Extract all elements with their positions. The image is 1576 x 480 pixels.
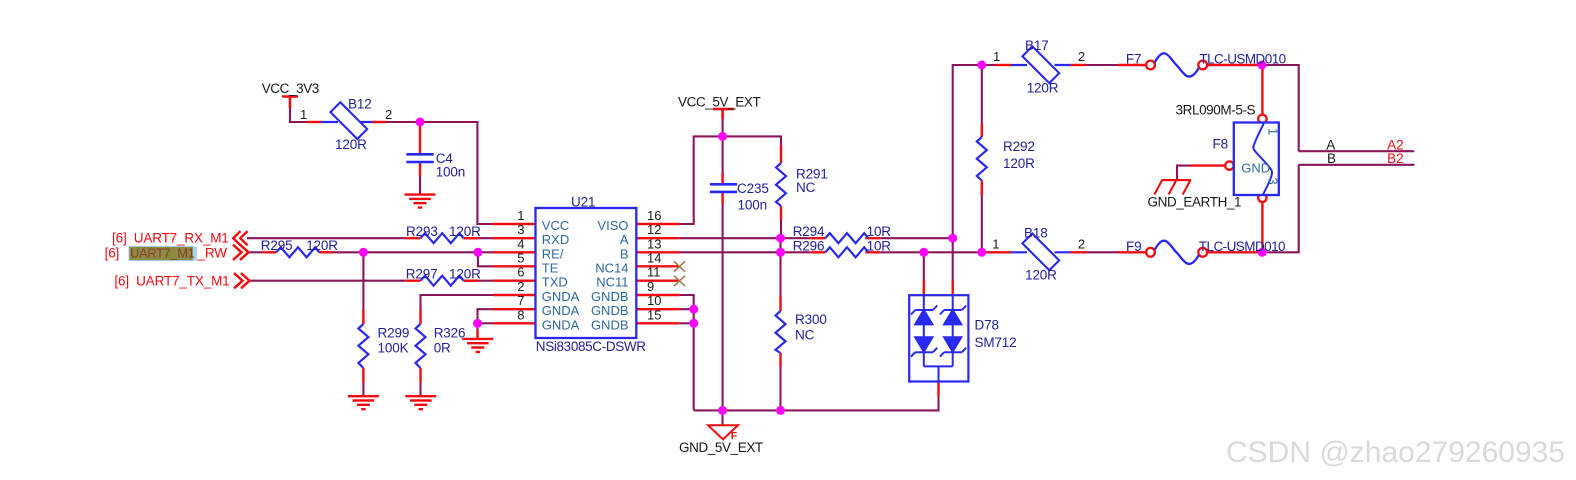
svg-text:2: 2 <box>385 107 392 122</box>
pin stub D78 bottom <box>937 382 939 398</box>
wire port RX to R293 <box>247 237 405 239</box>
svg-text:6: 6 <box>517 265 524 280</box>
pin stub R300 top <box>779 296 781 311</box>
wire RE row into chip pin4 <box>478 251 494 253</box>
resistor R291 vertical <box>776 163 786 206</box>
wire chip pin9 GNDB down <box>679 295 694 410</box>
svg-text:120R: 120R <box>449 266 481 281</box>
junction C235 bottom <box>718 406 727 415</box>
pin stub chip pin10 <box>636 308 679 310</box>
svg-text:TXD: TXD <box>542 275 568 290</box>
svg-text:B: B <box>1327 151 1336 166</box>
svg-text:TE: TE <box>542 260 559 275</box>
pin stub R326 top <box>419 310 421 324</box>
svg-text:7: 7 <box>517 293 524 308</box>
wire C4 bottom to ground <box>419 176 421 194</box>
svg-text:1: 1 <box>517 208 524 223</box>
svg-text:VCC: VCC <box>542 218 569 233</box>
resistor R295 <box>276 247 319 257</box>
svg-text:R296: R296 <box>793 238 825 253</box>
junction C4 tap <box>416 118 425 127</box>
wire R300 bottom to GND rail <box>779 367 781 411</box>
pin stub D78 right top <box>952 281 954 296</box>
svg-text:GNDA: GNDA <box>542 289 580 304</box>
svg-text:RE/: RE/ <box>542 246 564 261</box>
wire chip pinB to R296 <box>679 251 810 253</box>
svg-text:13: 13 <box>647 236 661 251</box>
svg-text:3RL090M-5-S: 3RL090M-5-S <box>1176 103 1256 118</box>
power bar VCC_3V3 <box>282 97 298 109</box>
junction 5V rail tap <box>718 132 727 141</box>
svg-text:120R: 120R <box>335 137 367 152</box>
pin stub chip pin11 NC <box>636 280 678 282</box>
wire F9 to B corner <box>1262 165 1299 253</box>
pin stub R292 top <box>981 123 983 137</box>
junction R292 bottom <box>977 248 986 257</box>
pin stub R297 left <box>406 280 421 282</box>
junction A net <box>948 234 957 243</box>
svg-text:UART7_M1: UART7_M1 <box>130 245 195 260</box>
wire F8 bottom to B rail <box>1261 243 1263 252</box>
svg-text:GND: GND <box>1241 161 1270 176</box>
wire F7 to A corner <box>1262 65 1299 151</box>
svg-text:TLC-USMD010: TLC-USMD010 <box>1199 239 1285 254</box>
svg-text:B18: B18 <box>1024 226 1048 241</box>
junction RE-TE tie <box>473 248 482 257</box>
wire chip pinA to R294 <box>679 237 810 239</box>
wire R294 to A junction <box>880 237 952 239</box>
pin stub R296 right <box>865 251 880 253</box>
pin stub R297 right <box>464 280 479 282</box>
port arrow RX left chevrons <box>233 231 247 245</box>
pin stub R295 left <box>263 251 277 253</box>
resistor R296 <box>825 247 868 257</box>
ferrite bead B17 <box>1011 46 1071 83</box>
wire VISO to 5V rail <box>679 136 781 224</box>
pin stub R296 left <box>810 251 825 253</box>
svg-text:NC14: NC14 <box>595 260 628 275</box>
D78 common bottom <box>924 366 953 381</box>
pin stub B12 pin2 <box>372 121 387 123</box>
wire chip pin7 pin8 GNDA tie <box>478 309 494 332</box>
pin stub R293 right <box>464 237 479 239</box>
wire VCC_3V3 down to B12 row <box>290 107 307 122</box>
wire F8 left pin to earth <box>1177 166 1191 180</box>
wire GND_5V_EXT symbol stub <box>721 410 723 425</box>
junction F8 top tap <box>1258 61 1267 70</box>
pin stub C235 bottom <box>721 193 723 205</box>
junction D78 left tap <box>919 248 928 257</box>
ferrite bead B18 <box>1011 234 1071 271</box>
wire R295 to RE node <box>319 252 493 266</box>
resistor R299 vertical <box>358 324 368 368</box>
pin stub B17 pin1 <box>996 64 1012 66</box>
port arrow RW right chevrons <box>233 245 249 260</box>
wire D78 left column tap <box>923 252 925 281</box>
svg-text:120R: 120R <box>1003 156 1035 171</box>
capacitor C235 <box>710 184 737 192</box>
junction R300 bottom rail <box>776 406 785 415</box>
D78 right zener pair <box>940 295 966 366</box>
svg-text:120R: 120R <box>306 238 338 253</box>
svg-text:GND_5V_EXT: GND_5V_EXT <box>679 440 763 455</box>
wire VCC_5V_EXT down <box>722 118 724 136</box>
svg-text:[6] UART7_TX_M1: [6] UART7_TX_M1 <box>114 274 229 289</box>
wire chip pin15 GNDB <box>679 322 694 324</box>
svg-text:RXD: RXD <box>542 232 569 247</box>
surge arrester F8 box <box>1225 115 1279 202</box>
resistor R292 vertical <box>977 137 987 181</box>
svg-text:R292: R292 <box>1003 139 1035 154</box>
wire top rail junction to B17 <box>982 64 996 66</box>
power bar VCC_5V_EXT <box>713 109 734 119</box>
svg-text:15: 15 <box>647 307 661 322</box>
pin stub F7 left <box>1118 64 1146 66</box>
svg-text:NSi83085C-DSWR: NSi83085C-DSWR <box>536 339 646 354</box>
no-connect X pin14 <box>674 261 685 271</box>
pin stub chip pin12 <box>636 237 679 239</box>
svg-text:[6]: [6] <box>105 245 120 260</box>
pin stub chip pin8 <box>493 322 536 324</box>
earth ground GND_EARTH_1 <box>1154 180 1191 194</box>
svg-text:3: 3 <box>517 222 524 237</box>
pin stub C4 bottom <box>419 163 421 177</box>
wire R291 bottom to row A <box>780 220 782 239</box>
TVS D78 box <box>909 295 968 381</box>
pin stub B12 pin1 <box>307 121 321 123</box>
svg-text:11: 11 <box>647 265 661 280</box>
F8 internal squiggle <box>1253 124 1272 196</box>
svg-text:120R: 120R <box>1025 268 1057 283</box>
wire R292 bottom to row B <box>981 194 983 253</box>
svg-text:B: B <box>620 246 629 261</box>
wire R299 bottom to ground <box>362 382 364 397</box>
ferrite bead B12 <box>321 102 372 139</box>
pin stub chip pin2 <box>493 294 536 296</box>
svg-text:R294: R294 <box>793 224 825 239</box>
svg-text:F8: F8 <box>1213 137 1228 152</box>
pin stub F8 left <box>1190 164 1225 166</box>
svg-text:B2: B2 <box>1387 151 1404 166</box>
pin stub chip pin3 <box>493 237 536 239</box>
resistor R326 vertical <box>416 324 426 368</box>
pin stub chip pin16 <box>636 223 679 225</box>
svg-text:[6] UART7_RX_M1: [6] UART7_RX_M1 <box>112 230 229 245</box>
wire B18 pin2 to F9 <box>1086 251 1120 253</box>
pin stub R291 top <box>780 145 782 163</box>
junction GNDB row15 <box>689 319 698 328</box>
pin stub C4 top <box>419 123 421 154</box>
wire chip pin2 GNDA to R326 <box>421 295 494 311</box>
svg-text:0R: 0R <box>434 341 451 356</box>
junction GNDA pins7-8 <box>473 319 482 328</box>
wire C235 column lower <box>722 203 724 410</box>
svg-text:CSDN @zhao279260935: CSDN @zhao279260935 <box>1226 436 1565 469</box>
resistor R297 <box>421 276 464 286</box>
ground at R326 <box>405 396 436 409</box>
pin stub R300 bottom <box>779 353 781 367</box>
wire chip pin10 GNDB <box>679 308 694 310</box>
capacitor C4 <box>406 154 433 162</box>
resistor R293 <box>421 233 464 243</box>
svg-text:F7: F7 <box>1126 52 1141 67</box>
wire R293 to chip pin3 <box>464 237 494 239</box>
wire R326 bottom to ground <box>419 382 421 397</box>
pin stub R291 bottom <box>780 206 782 220</box>
svg-text:_RW: _RW <box>197 245 228 260</box>
junction R299 tap <box>359 248 368 257</box>
svg-text:A: A <box>620 232 629 247</box>
pin stub chip pin5 <box>493 265 536 267</box>
wire B12 pin2 to VCC column <box>386 122 494 224</box>
wire R297 to chip pin6 <box>464 280 494 282</box>
svg-text:NC: NC <box>795 328 815 343</box>
svg-text:R297: R297 <box>406 266 438 281</box>
pin stub F8 bottom <box>1261 202 1263 244</box>
svg-text:TLC-USMD010: TLC-USMD010 <box>1199 52 1285 67</box>
svg-text:R326: R326 <box>434 325 466 340</box>
pin stub B18 pin1 <box>986 251 1011 253</box>
pin stub chip pin1 <box>493 223 536 225</box>
no-connect X pin11 <box>674 276 685 286</box>
pin stub chip pin6 <box>493 280 536 282</box>
svg-text:NC: NC <box>796 180 816 195</box>
wire port RW to R295 <box>247 251 263 253</box>
svg-text:1: 1 <box>1266 128 1281 135</box>
wire R292 top stub <box>981 65 983 124</box>
pin stub C235 top <box>721 173 723 184</box>
pin stub R295 right <box>319 251 333 253</box>
svg-text:1: 1 <box>993 49 1000 64</box>
svg-text:GNDA: GNDA <box>542 317 580 332</box>
D78 left zener pair <box>911 295 937 366</box>
wire R299 top tap <box>362 252 364 310</box>
svg-text:120R: 120R <box>449 224 481 239</box>
svg-text:2: 2 <box>517 279 524 294</box>
resistor R300 vertical <box>776 311 786 353</box>
svg-text:120R: 120R <box>1027 81 1059 96</box>
svg-text:C235: C235 <box>737 181 769 196</box>
svg-text:GNDB: GNDB <box>591 289 629 304</box>
svg-text:1: 1 <box>992 237 999 252</box>
fuse F9 <box>1146 241 1207 264</box>
svg-text:16: 16 <box>647 208 661 223</box>
wire A junction up to top rail <box>953 65 982 238</box>
chip U21 box <box>536 208 637 338</box>
resistor R294 <box>825 233 868 243</box>
wire C235 column upper <box>722 136 724 174</box>
PINSTUBS <box>263 65 1263 397</box>
svg-text:10R: 10R <box>867 238 892 253</box>
svg-text:VISO: VISO <box>597 218 628 233</box>
wire B17 pin2 to F7 <box>1086 64 1120 66</box>
wire R296 to B18 <box>880 251 986 253</box>
svg-text:D78: D78 <box>975 318 999 333</box>
svg-text:R295: R295 <box>261 238 293 253</box>
junction R300 row B <box>776 248 785 257</box>
junction F8 bottom tap <box>1258 248 1267 257</box>
svg-text:SM712: SM712 <box>975 335 1017 350</box>
svg-text:8: 8 <box>517 307 524 322</box>
junction R291 row A <box>776 234 785 243</box>
wire A output line <box>1299 150 1415 152</box>
svg-text:9: 9 <box>647 279 654 294</box>
pin stub R299 bottom <box>362 368 364 382</box>
svg-text:2: 2 <box>1078 49 1085 64</box>
ground GND_5V_EXT flag <box>708 425 738 439</box>
svg-text:NC11: NC11 <box>596 275 628 290</box>
wire B output line <box>1299 164 1415 166</box>
svg-text:100K: 100K <box>378 341 409 356</box>
highlight box UART7_M1 <box>129 246 194 260</box>
svg-text:GNDB: GNDB <box>591 303 629 318</box>
pin stub chip pin15 <box>636 322 679 324</box>
svg-text:100n: 100n <box>738 198 767 213</box>
fuse F7 <box>1146 53 1207 76</box>
pin stub B18 pin2 <box>1070 251 1086 253</box>
ground at C4 <box>405 195 436 208</box>
svg-text:U21: U21 <box>571 195 595 210</box>
pin stub GNDA gnd <box>476 330 478 340</box>
pin stub chip pin4 <box>493 251 536 253</box>
pin stub chip pin7 <box>493 308 536 310</box>
svg-text:1: 1 <box>300 107 307 122</box>
svg-text:GNDB: GNDB <box>591 317 629 332</box>
pin stub D78 left top <box>923 281 925 296</box>
svg-text:VCC_3V3: VCC_3V3 <box>262 81 319 96</box>
pin stub R294 left <box>810 237 825 239</box>
svg-text:R299: R299 <box>378 325 410 340</box>
port arrow TX right chevrons <box>234 273 250 288</box>
wire R291-R300 column between rows <box>779 238 781 297</box>
svg-text:R293: R293 <box>406 224 438 239</box>
svg-text:GNDA: GNDA <box>542 303 580 318</box>
wire GND_5V_EXT bottom rail <box>694 396 939 410</box>
pin stub R294 right <box>865 237 880 239</box>
svg-text:B17: B17 <box>1025 38 1049 53</box>
pin stub F7 right <box>1207 64 1262 66</box>
svg-text:12: 12 <box>647 222 661 237</box>
svg-text:F9: F9 <box>1126 239 1141 254</box>
pin stub chip pin14 NC <box>636 265 678 267</box>
svg-text:R300: R300 <box>795 312 827 327</box>
pin stub R293 left <box>405 237 420 239</box>
svg-text:10: 10 <box>647 293 661 308</box>
ground at GNDA pins <box>462 339 493 352</box>
pin stub R292 bottom <box>981 181 983 195</box>
svg-text:14: 14 <box>647 250 661 265</box>
pin stub F9 left <box>1118 251 1146 253</box>
svg-text:4: 4 <box>517 236 524 251</box>
wire port TX to R297 <box>248 280 405 282</box>
svg-text:10R: 10R <box>867 224 892 239</box>
pin stub F9 right <box>1207 251 1262 253</box>
svg-text:100n: 100n <box>436 165 465 180</box>
pin stub chip pin9 <box>636 294 679 296</box>
svg-text:B12: B12 <box>348 97 372 112</box>
highlight cursor sliver <box>194 246 197 260</box>
pin stub F8 top <box>1261 65 1263 115</box>
junction GNDB row10 <box>689 305 698 314</box>
svg-text:2: 2 <box>1078 237 1085 252</box>
wire chip pin8 GNDA <box>478 322 494 324</box>
svg-text:5: 5 <box>517 250 524 265</box>
wire A junction down to D78 <box>952 238 954 281</box>
svg-text:3: 3 <box>1266 178 1281 185</box>
pin stub R299 top <box>362 310 364 324</box>
pin stub chip pin13 <box>636 251 679 253</box>
pin stub B17 pin2 <box>1070 64 1086 66</box>
ground at R299 <box>348 396 379 409</box>
pin stub R326 bottom <box>419 368 421 382</box>
junction R292 top <box>977 61 986 70</box>
svg-text:GND_EARTH_1: GND_EARTH_1 <box>1148 194 1242 209</box>
svg-text:VCC_5V_EXT: VCC_5V_EXT <box>678 95 760 110</box>
